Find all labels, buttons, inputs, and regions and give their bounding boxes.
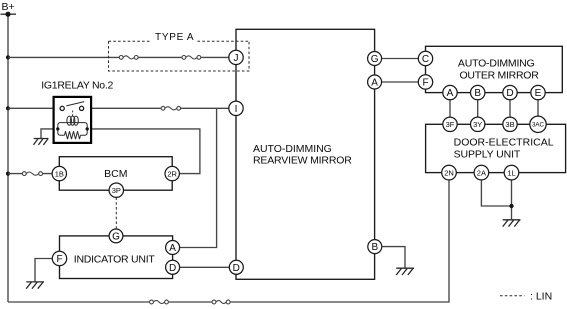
ground (indicator F) — [26, 282, 44, 289]
svg-text:B: B — [371, 242, 378, 253]
terminal 3P (BCM) — [109, 183, 123, 197]
svg-text:3Y: 3Y — [473, 120, 482, 129]
LIN legend — [500, 290, 552, 302]
TYPE A dashed box — [109, 41, 250, 71]
terminal G (indicator unit) — [109, 229, 123, 243]
wire B+ to fusible links to J — [8, 56, 229, 58]
svg-text:3F: 3F — [446, 120, 455, 129]
LIN dashed wire 3P to G — [115, 197, 117, 229]
ground (mirror B) — [396, 268, 414, 275]
door-electrical supply unit box — [426, 124, 566, 172]
wire mirror A to outer mirror F — [382, 81, 419, 83]
wire branch from I feed down to indicator A — [180, 108, 217, 247]
wire B+ to relay switch — [8, 107, 60, 109]
terminal D (indicator unit) — [166, 260, 180, 274]
svg-text:SUPPLY UNIT: SUPPLY UNIT — [454, 148, 521, 160]
svg-text:G: G — [112, 232, 120, 243]
BCM box — [59, 157, 172, 191]
terminal D (rearview mirror) — [229, 260, 243, 274]
relay coil — [56, 116, 89, 139]
junction on B+ bus at TYPE A feed — [6, 55, 10, 59]
wire 1L to ground — [511, 180, 513, 220]
terminal 3AC (door unit) — [530, 116, 546, 132]
terminal C (outer mirror) — [418, 51, 432, 65]
fuse between relay and I — [161, 106, 181, 110]
terminal 2N (door unit) — [442, 165, 457, 180]
svg-text:J: J — [234, 53, 239, 64]
terminal D (outer mirror bottom) — [503, 85, 517, 99]
auto-dimming outer mirror box — [426, 46, 563, 92]
wire outer mirror D to 3B — [509, 100, 511, 117]
wire 2A to ground junction — [481, 180, 511, 206]
terminal A (indicator unit) — [166, 241, 180, 255]
svg-text:2R: 2R — [167, 169, 177, 178]
indicator unit box — [60, 236, 173, 279]
fuse on bottom rail (left) — [150, 300, 169, 304]
svg-text:B: B — [474, 88, 481, 99]
svg-text:AUTO-DIMMING: AUTO-DIMMING — [458, 57, 535, 69]
svg-text:D: D — [169, 263, 176, 274]
terminal 3F (door unit) — [443, 117, 457, 131]
svg-text:TYPE A: TYPE A — [155, 32, 194, 43]
svg-text:3B: 3B — [505, 120, 514, 129]
terminal 2R (BCM) — [165, 166, 179, 180]
junction on B+ bus at BCM feed — [6, 172, 10, 176]
svg-text:D: D — [506, 88, 513, 99]
terminal 3B (door unit) — [503, 117, 517, 131]
svg-text:E: E — [535, 88, 542, 99]
svg-text:INDICATOR UNIT: INDICATOR UNIT — [74, 253, 156, 265]
svg-text:3P: 3P — [112, 186, 121, 195]
terminal E (outer mirror bottom) — [531, 85, 545, 99]
svg-text:1B: 1B — [55, 169, 64, 178]
relay IG1 RELAY No.2 — [41, 80, 113, 143]
svg-text:2A: 2A — [477, 168, 486, 177]
svg-text:IG1RELAY No.2: IG1RELAY No.2 — [41, 80, 113, 92]
fusible link 2 (TYPE A) — [182, 56, 201, 60]
wire relay coil to ground — [41, 129, 58, 138]
terminal B (rearview mirror) — [368, 240, 382, 254]
wire outer mirror B to 3Y — [477, 100, 479, 117]
junction 2A/1L ground — [509, 204, 513, 208]
svg-text:BCM: BCM — [104, 168, 127, 180]
relay switch contacts — [60, 102, 84, 117]
svg-text:AUTO-DIMMING: AUTO-DIMMING — [253, 143, 332, 155]
wire outer mirror A to 3F — [449, 100, 451, 117]
terminal 1B (BCM) — [52, 166, 66, 180]
terminal B (outer mirror bottom) — [471, 85, 485, 99]
terminal A (outer mirror bottom) — [443, 85, 457, 99]
wire indicator D to mirror D — [180, 266, 230, 268]
wire B+ bus vertical — [7, 14, 9, 302]
svg-text:A: A — [371, 78, 378, 89]
wire relay switch to fuse to I — [84, 107, 229, 109]
svg-text:I: I — [235, 104, 238, 115]
svg-text:C: C — [422, 54, 429, 65]
svg-text:B+: B+ — [2, 1, 15, 13]
svg-text:1L: 1L — [507, 168, 515, 177]
svg-text:2N: 2N — [444, 168, 454, 177]
svg-text:3AC: 3AC — [532, 122, 545, 129]
svg-text:DOOR-ELECTRICAL: DOOR-ELECTRICAL — [454, 136, 554, 148]
terminal F (outer mirror) — [418, 75, 432, 89]
svg-text:A: A — [447, 88, 454, 99]
wire outer mirror E to 3AC — [537, 100, 539, 116]
svg-text:A: A — [169, 243, 176, 254]
svg-text:G: G — [371, 54, 379, 65]
terminal A (rearview mirror) — [368, 75, 382, 89]
terminal J (rearview mirror) — [229, 50, 243, 64]
terminal I (rearview mirror) — [229, 101, 243, 115]
terminal G (rearview mirror) — [368, 52, 382, 66]
svg-text:F: F — [422, 78, 428, 89]
terminal 3Y (door unit) — [471, 117, 485, 131]
wire bottom rail to 2N — [8, 180, 449, 302]
wire B+ to fuse to 1B — [8, 173, 52, 175]
auto-dimming rearview mirror box — [236, 29, 375, 279]
ground (relay coil) — [33, 139, 48, 145]
ground (door unit 1L/2A) — [503, 220, 521, 227]
wire mirror G to outer mirror C — [382, 58, 419, 60]
svg-text:: LIN: : LIN — [530, 290, 552, 302]
terminal 2A (door unit) — [474, 165, 489, 180]
terminal F (indicator unit) — [52, 251, 66, 265]
fuse on bottom rail (right) — [212, 300, 230, 304]
fusible link 1 (TYPE A) — [119, 56, 138, 60]
terminal 1L (door unit) — [504, 165, 519, 180]
fuse before 1B — [22, 172, 42, 176]
svg-text:REARVIEW MIRROR: REARVIEW MIRROR — [253, 154, 352, 166]
wire BCM 2R to relay coil — [87, 129, 200, 174]
wire indicator F to ground — [35, 259, 53, 282]
power B+ — [1, 1, 17, 17]
wire mirror B to ground — [382, 247, 405, 268]
svg-text:F: F — [56, 254, 62, 265]
svg-text:D: D — [233, 263, 240, 274]
junction on B+ bus at relay feed — [6, 106, 10, 110]
svg-text:OUTER MIRROR: OUTER MIRROR — [460, 69, 540, 81]
